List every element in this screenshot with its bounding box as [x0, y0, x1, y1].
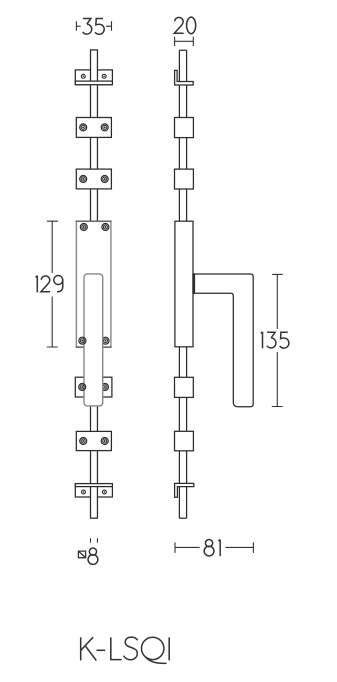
top keeper bracket plate	[75, 70, 112, 85]
plate screws top	[80, 224, 109, 231]
Q	[142, 637, 164, 659]
hyphen	[97, 649, 106, 651]
dim 20	[175, 37, 194, 46]
129	[36, 276, 38, 293]
guide bracket 2	[76, 118, 111, 138]
I	[168, 637, 170, 660]
dim 135	[272, 274, 283, 406]
20	[174, 17, 183, 33]
block 6 (side)	[175, 431, 194, 451]
rod (vertical square bar, in front of keeper plates)	[91, 50, 98, 518]
dim 35	[76, 21, 111, 31]
bottom keeper (side, L-shape)	[175, 483, 194, 497]
guide bracket 3	[76, 169, 111, 189]
dim 8 ticks	[91, 538, 98, 542]
main plate (front)	[76, 221, 111, 347]
L	[111, 637, 122, 659]
block 2 (side)	[175, 118, 194, 138]
S	[124, 637, 138, 660]
bottom keeper band (in front of rod)	[75, 484, 112, 487]
top keeper (side, L-shape)	[175, 70, 194, 85]
rod side	[179, 50, 186, 518]
bracket5 left screw (drawn over grip edge)	[79, 384, 86, 391]
junction thick edge	[193, 273, 195, 293]
block 5 (side)	[175, 377, 194, 397]
plate (side)	[175, 221, 193, 347]
handle (side view)	[193, 274, 253, 407]
bracket 5 (behind grip)	[75, 377, 112, 397]
guide bracket 6	[76, 431, 111, 450]
8 (bottom left)	[88, 548, 98, 564]
plate bottom-left screw (drawn over grip edge)	[79, 337, 86, 344]
bottom keeper bracket plate	[75, 484, 112, 497]
dim 129	[47, 221, 58, 347]
top keeper band (in front of rod)	[75, 81, 112, 85]
81	[204, 540, 214, 556]
dimension digits	[36, 17, 289, 564]
handle grip (front view, covers bracket5 middle)	[84, 274, 103, 406]
square-section symbol	[78, 551, 85, 558]
K	[81, 637, 97, 660]
dim 81	[175, 542, 253, 553]
135	[261, 332, 263, 349]
35 (top)	[83, 18, 92, 34]
plate screws bottom (partly behind grip)	[102, 337, 109, 344]
block 3 (side)	[175, 169, 194, 189]
